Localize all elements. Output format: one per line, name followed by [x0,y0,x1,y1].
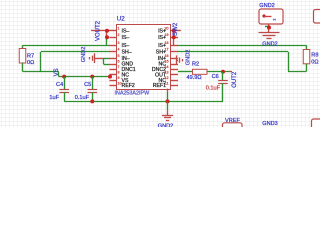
junction VS pin [108,75,112,79]
svg-text:8: 8 [118,71,120,75]
resistor R8 [303,50,310,64]
wire R7 to SH- [22,63,24,72]
svg-text:SW2: SW2 [173,22,179,36]
U2 right pin 20 IS+ [171,30,178,32]
junction C5 top [90,75,94,79]
U2 right pin 18 IS+ [171,45,178,47]
op-amp U2 INA253A2IPW body [117,25,171,90]
ground GND2 left of U2 [95,58,104,60]
wire VOUT2 to IS- pins tie [91,30,110,32]
capacitor C5 [92,77,94,90]
svg-text:0Ω: 0Ω [27,60,34,66]
svg-text:C5: C5 [84,82,91,88]
U2 left pin 10 REF2 [110,85,117,87]
wire VS riser [58,72,60,77]
U2 right pin 12 NC [171,80,178,82]
wire SH+ to R8 [178,45,307,47]
svg-text:12: 12 [165,76,169,80]
svg-text:19: 19 [165,33,169,37]
svg-text:18: 18 [165,41,169,45]
U2 left pin 9 VS [110,80,117,82]
junction IS+ pin19 [172,35,176,39]
resistor R2 [193,69,208,74]
svg-text:7: 7 [118,65,120,69]
svg-text:R7: R7 [27,54,34,60]
U2 right pin 19 IS+ [171,37,178,39]
svg-text:GND2: GND2 [262,42,278,48]
svg-text:17: 17 [165,48,169,52]
svg-text:IS–: IS– [122,43,130,49]
svg-text:GND3: GND3 [262,121,278,127]
svg-text:11: 11 [165,81,169,85]
U2 right pin 17 SH+ [171,51,178,53]
U2 left pin 5 IN&#8211; [110,58,117,60]
svg-text:R8: R8 [311,53,318,59]
svg-text:13: 13 [165,71,169,75]
junction IS+ pin20 [172,29,176,33]
svg-text:GND2: GND2 [186,50,192,66]
svg-text:6: 6 [118,60,120,64]
connector partial right edge [314,10,320,24]
connector GND2 box [259,9,283,24]
junction C4 top [62,75,66,79]
capacitor C4 [64,77,66,90]
ground GND2 top right [259,32,280,34]
svg-text:R2: R2 [192,62,199,68]
U2 right pin 11 REF1 [171,85,178,87]
connector GND2 pin wire [265,26,269,28]
svg-text:0.1uF: 0.1uF [206,86,221,92]
ground GND2 right of U2 [177,60,179,62]
svg-text:1uF: 1uF [49,95,59,101]
U2 right pin 16 IN+ [171,58,178,60]
svg-text:GND2: GND2 [259,3,275,9]
resistor R7 [19,49,26,64]
svg-text:VS: VS [54,68,60,76]
svg-text:INA253A2IPW: INA253A2IPW [114,91,150,97]
svg-text:VOUT2: VOUT2 [96,20,102,41]
svg-text:2: 2 [273,18,277,20]
svg-text:1: 1 [118,27,120,31]
junction GND rail center [166,99,170,103]
svg-text:C6: C6 [212,74,219,80]
svg-text:9: 9 [118,76,120,80]
wire SW2 to IS+ pins tie [178,30,181,32]
U2 right pin 15 NC [171,64,178,66]
svg-text:IS–: IS– [122,28,130,34]
wire OUT to R2 [178,71,193,73]
U2 bottom pad pin [167,89,169,92]
svg-text:20: 20 [165,27,169,31]
U2 left pin 8 NC [110,74,117,76]
U2 right pin 13 OUT [171,74,178,76]
wire GND pin to ground [104,64,110,66]
svg-text:C4: C4 [56,82,63,88]
svg-text:U2: U2 [117,16,125,23]
svg-text:3: 3 [118,41,120,45]
junction C5 GND rail [90,99,94,103]
wire VS rail [59,76,110,78]
U2 right pin 14 DNC2 [171,69,178,71]
capacitor C6 [222,72,224,80]
svg-text:REF2: REF2 [122,83,135,89]
svg-text:14: 14 [165,65,169,69]
svg-text:OUT2: OUT2 [232,71,238,88]
wire GND rail [64,101,223,103]
U2 left pin 3 IS&#8211; [110,45,117,47]
junction IS- pin2 [105,35,109,39]
connector GND2 pin 1 [262,14,265,17]
ground GND2 under U2 [167,101,169,110]
svg-text:GND2: GND2 [158,124,174,127]
U2 left pin 2 IS&#8211; [110,37,117,39]
svg-text:10: 10 [118,81,122,85]
svg-text:4: 4 [118,48,120,52]
svg-text:16: 16 [165,54,169,58]
svg-text:15: 15 [165,60,169,64]
U2 left pin 4 SH&#8211; [110,51,117,53]
wire R2 to OUT2 [207,71,230,73]
wire IS- to R7 [23,45,110,47]
junction IS- pin1 [105,29,109,33]
U2 left pin 1 IS&#8211; [110,30,117,32]
svg-text:5: 5 [118,54,120,58]
U2 left pin 7 DNC1 [110,69,117,71]
wire pad to GND rail [167,92,169,102]
junction C6 top [221,70,225,74]
svg-text:2: 2 [118,33,120,37]
wire R8 to IN+ [306,64,308,72]
connector partial bottom right corner [312,119,320,131]
svg-text:GND2: GND2 [81,47,87,63]
svg-text:0.1uF: 0.1uF [75,95,90,101]
svg-text:0Ω: 0Ω [311,60,318,66]
svg-text:IS–: IS– [122,35,130,41]
U2 left pin 6 GND [110,64,117,66]
schematic sheet background [0,0,320,127]
svg-text:SH–: SH– [122,49,132,55]
svg-text:49.9Ω: 49.9Ω [187,75,202,81]
connector partial VREF [223,123,243,133]
